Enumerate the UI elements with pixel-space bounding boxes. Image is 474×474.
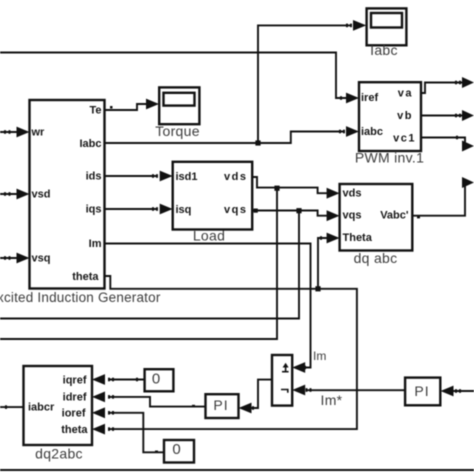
- wire vqs branch down and left off-canvas: [0, 211, 299, 319]
- scope Iabc: [367, 8, 407, 45]
- wire vsd input: [0, 189, 30, 200]
- node junction Iabc branch: [255, 140, 260, 145]
- wire constant 0 #2 to ioref: [92, 407, 164, 453]
- svg-text:Im: Im: [313, 349, 326, 363]
- node junction vqs stub dot: [254, 209, 258, 213]
- svg-text:isq: isq: [176, 204, 192, 216]
- wire constant 0 #1 to iqref: [92, 374, 145, 385]
- svg-text:dq2abc: dq2abc: [35, 446, 83, 462]
- svg-text:xcited Induction Generator: xcited Induction Generator: [0, 290, 161, 305]
- svg-text:PI: PI: [414, 383, 429, 399]
- svg-text:iqref: iqref: [63, 374, 87, 386]
- wire PI 2 input from right edge: [441, 386, 474, 397]
- wire iabcr output to left edge: [0, 405, 24, 409]
- svg-text:iabcr: iabcr: [28, 402, 55, 414]
- wire vsq input: [0, 253, 30, 264]
- svg-text:Te: Te: [89, 105, 101, 117]
- svg-text:PI: PI: [213, 397, 228, 413]
- wire iref net from left edge to PWM iref: [0, 53, 359, 104]
- svg-text:ioref: ioref: [62, 408, 86, 420]
- glyph minus hook: [281, 390, 288, 393]
- wire Vabc' output to edge: [412, 177, 474, 218]
- wire vqs net: Load vqs to dq abc vqs: [252, 210, 339, 221]
- svg-text:dq abc: dq abc: [354, 250, 398, 266]
- wire theta net: generator down and across to dq2abc theta: [92, 276, 357, 435]
- svg-text:iabc: iabc: [361, 126, 383, 138]
- block constant 0 #2: [164, 440, 194, 463]
- node junction vqs branch: [296, 208, 301, 213]
- wire va output to edge: [421, 77, 474, 93]
- svg-text:vqs: vqs: [224, 204, 247, 216]
- svg-text:vb: vb: [397, 110, 413, 122]
- wire Im net: generator to switch input 1: [105, 244, 311, 373]
- svg-text:Torque: Torque: [155, 123, 200, 139]
- svg-text:0: 0: [152, 371, 160, 388]
- wire Iabc net: generator to junction, PWM iabc, and scope: [105, 126, 360, 143]
- block sum/switch U2: [272, 355, 292, 406]
- block dq2abc: [24, 366, 93, 445]
- svg-text:Iabc: Iabc: [370, 42, 398, 58]
- svg-text:vds: vds: [224, 171, 247, 183]
- svg-text:Theta: Theta: [343, 232, 373, 244]
- svg-text:vqs: vqs: [343, 210, 362, 222]
- svg-text:vds: vds: [343, 188, 362, 200]
- svg-text:theta: theta: [61, 424, 88, 436]
- svg-text:Iabc: Iabc: [79, 138, 101, 150]
- scope Torque: [159, 87, 199, 124]
- svg-text:0: 0: [172, 441, 180, 458]
- wire Im* from PI 2 output to switch input 2: [292, 385, 405, 396]
- svg-text:Im: Im: [89, 238, 102, 250]
- svg-text:Load: Load: [193, 228, 225, 244]
- glyph arrow up: [285, 367, 287, 373]
- svg-text:Vabc': Vabc': [380, 210, 409, 222]
- node junction theta branch: [315, 286, 320, 291]
- svg-text:iref: iref: [361, 92, 378, 104]
- block U1 Self-excited Induction Generator: [30, 100, 105, 289]
- svg-text:idref: idref: [63, 391, 87, 403]
- wire theta branch up to dq abc Theta: [318, 233, 340, 289]
- svg-text:isd1: isd1: [176, 171, 198, 183]
- wire wr input: [0, 127, 30, 138]
- wire vc1 output to edge: [421, 136, 474, 152]
- wire iqs to Load isq: [105, 204, 173, 215]
- svg-text:wr: wr: [31, 127, 46, 139]
- wire bottom horizontal: [0, 469, 474, 471]
- block PWM inv.1: [359, 82, 421, 151]
- wire Te to Torque scope: [105, 99, 160, 110]
- wire vds branch down and left off-canvas: [0, 188, 277, 339]
- block Load: [173, 162, 253, 230]
- svg-text:iqs: iqs: [86, 204, 102, 216]
- wire PI 1 output to idref: [92, 392, 206, 408]
- svg-text:ids: ids: [86, 171, 102, 183]
- wire ids to Load isd1: [105, 171, 173, 182]
- node junction vds branch: [274, 186, 279, 191]
- svg-text:Im*: Im*: [321, 392, 343, 408]
- svg-text:PWM inv.1: PWM inv.1: [355, 150, 424, 166]
- svg-text:va: va: [398, 88, 413, 100]
- block constant 0 #1: [145, 369, 174, 391]
- svg-text:vc1: vc1: [393, 133, 416, 145]
- wire Iabc branch up to scope: [258, 20, 366, 143]
- svg-text:theta: theta: [72, 271, 99, 283]
- svg-text:vsq: vsq: [32, 253, 51, 265]
- wire vb output to edge: [421, 110, 474, 121]
- svg-text:vsd: vsd: [32, 189, 51, 201]
- wire vds net: Load vds to dq abc vds: [252, 177, 339, 199]
- block PI 1: [206, 394, 239, 418]
- block PI 2: [405, 378, 440, 406]
- wire vds arrow into dq abc handled above; block dq abc: [340, 184, 413, 251]
- wire switch output to PI 1 input: [239, 380, 273, 414]
